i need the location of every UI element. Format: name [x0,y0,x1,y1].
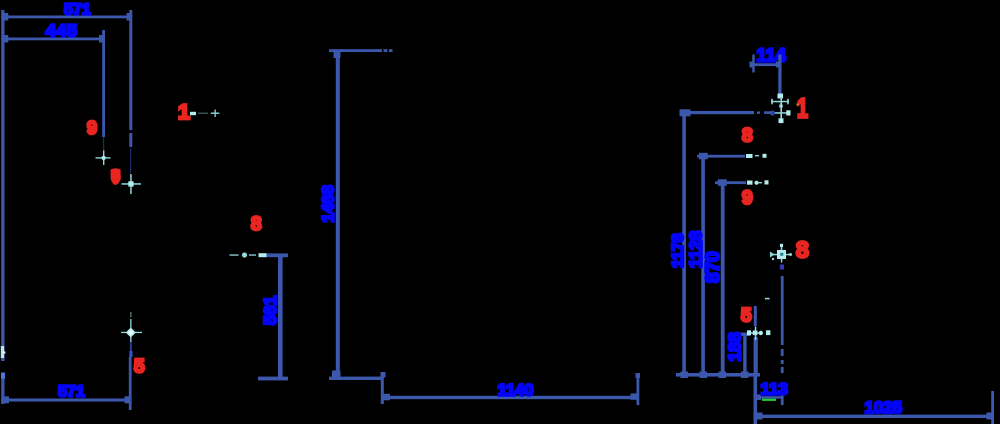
svg-text:1: 1 [797,93,808,124]
dimension D13 1025 [755,391,994,424]
svg-text:9: 9 [742,188,753,209]
svg-text:8: 8 [742,126,753,147]
svg-text:571: 571 [64,2,91,19]
dimension D1 line 571 top [1,13,131,21]
dimension D6 571 bottom left [1,357,132,410]
point marker M2 cross big [122,174,142,194]
point marker M7 [747,327,770,341]
svg-text:1140: 1140 [498,382,534,400]
wire extension from M6 down [780,265,784,406]
wire centerline dash right of label 1 [190,110,219,118]
point marker M4 left edge [1,346,6,379]
svg-text:561: 561 [260,296,280,325]
wire extension vertical x755 bottom right [754,373,758,424]
svg-text:5: 5 [741,306,752,327]
dimension D11 vertical right 188 [738,306,758,375]
dimension D3 vertical 561 [258,253,288,380]
point marker M3 star [121,312,142,357]
wire cyan dash stray [765,298,770,300]
wire extension line x104 [102,30,105,151]
svg-text:1178: 1178 [670,233,687,268]
dimension D4 tall vertical 1488 [329,49,393,380]
svg-text:9: 9 [87,118,97,138]
svg-text:1: 1 [178,100,190,124]
svg-text:8: 8 [251,214,262,235]
point marker M5 fancy cross top right [770,94,791,124]
wire extension line x131 [129,10,132,173]
dimension D5 1140 bottom middle [381,372,641,405]
dimension D8 vertical right 1178 [680,109,772,375]
svg-text:113: 113 [761,380,788,399]
svg-text:870: 870 [703,251,724,283]
svg-text:8: 8 [796,237,809,263]
dimension D12 113 [755,395,783,401]
point marker M6 fancy cross mid right [770,244,792,263]
dimension D7 114 [750,55,782,95]
wire green segment [762,399,776,401]
label 9 pin shape [111,168,121,185]
svg-text:445: 445 [46,21,78,41]
dimension D9 vertical right 988 [697,153,767,375]
wire centerline to dim D3 [230,252,267,257]
dimension D10 vertical right 870 [715,179,769,375]
svg-text:5: 5 [134,357,145,378]
svg-text:188: 188 [725,332,745,361]
svg-text:1025: 1025 [865,399,903,417]
svg-text:571: 571 [58,384,85,401]
wire left vertical extension line [1,10,4,404]
wire baseline right group [676,372,760,379]
dimension D2 line 445 [1,35,104,43]
point marker M1 cross [96,151,111,166]
svg-text:1488: 1488 [319,185,338,222]
